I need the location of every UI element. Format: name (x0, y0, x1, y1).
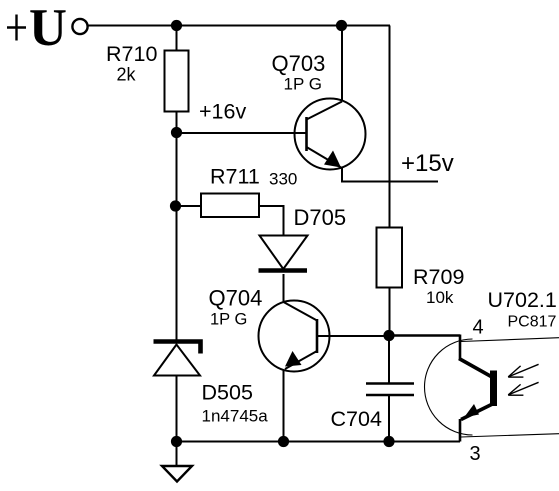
wire R711 left lead (176, 205, 201, 207)
wire R711 to D705 (259, 206, 284, 235)
svg-text:U702.1: U702.1 (488, 288, 557, 312)
resistor R711 (201, 194, 259, 218)
svg-text:3: 3 (470, 443, 481, 465)
svg-text:+16v: +16v (199, 100, 246, 124)
junction top rail / Q703 collector (336, 20, 347, 31)
svg-text:4: 4 (473, 317, 484, 339)
wire Q703 emitter lead (342, 168, 438, 182)
svg-text:330: 330 (269, 170, 297, 189)
wire bottom rail (177, 441, 461, 443)
wire R710 top lead (176, 26, 178, 52)
svg-text:Q703: Q703 (272, 51, 326, 76)
wire right vertical from top rail to R709 (389, 26, 391, 229)
wire Q704 base to node (317, 335, 390, 337)
junction C704 bottom / bottom rail (383, 436, 394, 447)
capacitor C704 (366, 384, 414, 396)
node +U plus sign (7, 15, 26, 41)
junction top rail / R710 (171, 20, 182, 31)
svg-text:R711: R711 (210, 165, 260, 189)
svg-text:R710: R710 (106, 42, 157, 66)
wire D705 to Q704 collector (283, 274, 285, 302)
svg-text:10k: 10k (426, 288, 454, 307)
svg-text:+15v: +15v (401, 150, 454, 177)
wire left vertical R710 bottom to zener (176, 112, 178, 343)
svg-text:C704: C704 (331, 407, 382, 431)
junction bottom-left (171, 436, 182, 447)
optocoupler U702.1 phototransistor (425, 335, 559, 442)
wire node to C704 top (388, 336, 390, 384)
resistor R709 (377, 228, 403, 288)
wire C704 bottom lead (388, 395, 390, 441)
light arrow 1 (508, 364, 538, 377)
wire Q704 emitter lead (283, 370, 285, 441)
junction R711 node (170, 200, 181, 211)
svg-text:Q704: Q704 (209, 286, 263, 311)
wire +16v to Q703 base (177, 132, 307, 134)
svg-text:1P G: 1P G (284, 75, 322, 94)
wire D505 anode to bottom rail (176, 375, 178, 441)
svg-text:1n4745a: 1n4745a (202, 407, 269, 426)
junction +16v node (171, 127, 182, 138)
wire ground lead (176, 442, 178, 467)
svg-text:D705: D705 (294, 205, 347, 230)
svg-text:2k: 2k (117, 65, 137, 85)
wire top rail (88, 25, 390, 27)
svg-text:U: U (29, 0, 67, 57)
wire Q703 collector lead (341, 26, 343, 102)
resistor R710 (165, 51, 189, 112)
junction base node (383, 330, 394, 341)
transistor Q703 (295, 99, 366, 170)
wire R709 bottom to node (389, 287, 391, 335)
terminal input circle (72, 19, 87, 34)
ground (162, 466, 192, 482)
svg-text:R709: R709 (413, 265, 464, 289)
svg-text:1P G: 1P G (210, 311, 247, 329)
diode D705 (259, 236, 308, 271)
transistor Q704 (259, 301, 330, 372)
light arrow 2 (508, 382, 538, 395)
svg-text:PC817: PC817 (508, 314, 557, 331)
svg-text:D505: D505 (202, 381, 253, 405)
zener diode D505 (154, 342, 201, 376)
wire node to optocoupler collector (389, 334, 460, 337)
junction Q704 emitter / bottom rail (278, 436, 289, 447)
